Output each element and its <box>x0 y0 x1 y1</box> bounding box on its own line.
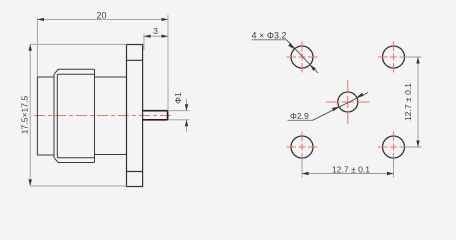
hole bottom-right <box>378 132 409 163</box>
hole top-left <box>287 42 318 73</box>
center hole <box>326 80 370 124</box>
svg-text:Φ2.9: Φ2.9 <box>290 111 309 121</box>
svg-text:17.5×17.5: 17.5×17.5 <box>20 96 30 135</box>
flange plate <box>127 45 143 187</box>
mid cylinder between nut and flange <box>95 77 127 155</box>
left cylinder (rear barrel) <box>37 77 54 155</box>
dimension 20 <box>37 10 168 110</box>
svg-text:12.7 ± 0.1: 12.7 ± 0.1 <box>332 164 370 174</box>
centerline left view <box>34 115 173 117</box>
hole top-right <box>378 42 409 73</box>
hex nut body <box>54 69 95 162</box>
center pin <box>143 111 168 120</box>
dimension 3 <box>144 26 168 50</box>
svg-text:12.7 ± 0.1: 12.7 ± 0.1 <box>403 83 413 121</box>
svg-text:4 × Φ3.2: 4 × Φ3.2 <box>252 31 287 41</box>
dimension phi1 <box>169 92 190 132</box>
dimension 12.7 vertical <box>401 57 422 147</box>
leader phi2.9 <box>288 93 369 121</box>
dimension 12.7 horizontal <box>302 154 394 178</box>
svg-text:Φ1: Φ1 <box>173 92 183 104</box>
leader 4x phi3.2 <box>252 31 319 73</box>
svg-text:20: 20 <box>96 10 106 20</box>
hole bottom-left <box>287 132 318 163</box>
dimension 17.5x17.5 <box>20 44 127 186</box>
svg-text:3: 3 <box>153 26 158 36</box>
